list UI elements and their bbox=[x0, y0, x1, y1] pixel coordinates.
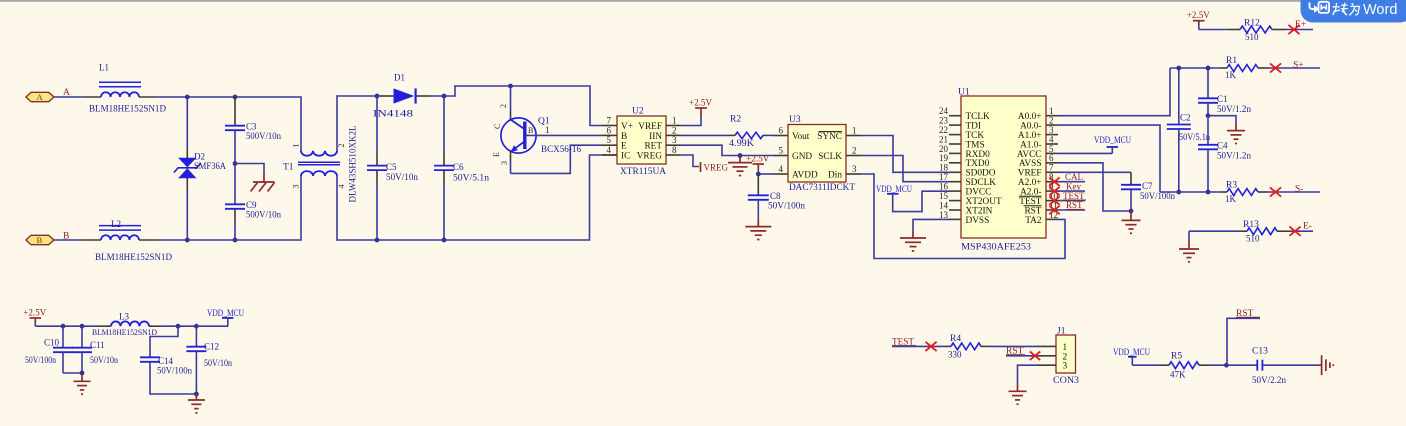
ground at DVSS bbox=[900, 229, 926, 251]
no-ERC at S- bbox=[1270, 187, 1281, 196]
svg-text:50V/5.1n: 50V/5.1n bbox=[1179, 132, 1210, 142]
earth ground at C13 (rotated) bbox=[1322, 355, 1334, 375]
net label S+ bbox=[1293, 61, 1304, 71]
capacitor C2 bbox=[1167, 68, 1211, 192]
svg-text:R5: R5 bbox=[1171, 351, 1182, 361]
svg-text:500V/10n: 500V/10n bbox=[246, 131, 281, 141]
net label A bbox=[63, 88, 70, 98]
power VDD_MCU bottom-left bbox=[207, 309, 244, 326]
wire A to L1 bbox=[54, 96, 101, 98]
svg-text:TA2: TA2 bbox=[1025, 216, 1042, 226]
ground at E- bbox=[1179, 231, 1199, 262]
svg-text:Vout: Vout bbox=[792, 132, 810, 142]
svg-text:R1: R1 bbox=[1226, 56, 1237, 66]
junction C12 ground bbox=[194, 392, 199, 397]
svg-text:+2.5V: +2.5V bbox=[689, 98, 712, 108]
svg-text:2: 2 bbox=[1049, 116, 1054, 126]
DAC U3 DAC7311IDCKT bbox=[773, 115, 861, 193]
wire U1 AVSS to ground bbox=[1058, 163, 1131, 211]
ground at C7 bbox=[1122, 211, 1141, 233]
diode D1 bbox=[373, 73, 430, 119]
connector J1 CON3 bbox=[1037, 327, 1079, 386]
svg-text:C14: C14 bbox=[158, 356, 174, 366]
svg-text:Word: Word bbox=[1363, 2, 1397, 18]
net label E- bbox=[1303, 222, 1312, 232]
svg-text:BLM18HE152SN1D: BLM18HE152SN1D bbox=[95, 252, 172, 262]
junction C11 ground bbox=[80, 371, 85, 376]
svg-text:C3: C3 bbox=[246, 122, 257, 132]
port A bbox=[26, 92, 54, 102]
svg-text:BLM18HE152SN1D: BLM18HE152SN1D bbox=[92, 327, 157, 337]
svg-text:4: 4 bbox=[607, 145, 612, 155]
svg-text:VREG: VREG bbox=[637, 151, 663, 161]
svg-text:50V/1.2n: 50V/1.2n bbox=[1217, 151, 1252, 161]
svg-text:AVDD: AVDD bbox=[792, 170, 818, 180]
wire RST to J1 pin2 bbox=[1006, 355, 1037, 357]
svg-text:4: 4 bbox=[779, 164, 784, 174]
svg-text:C13: C13 bbox=[1252, 347, 1268, 357]
power VDD_MCU bottom-right bbox=[1113, 348, 1150, 365]
svg-text:C10: C10 bbox=[44, 338, 60, 348]
svg-text:5: 5 bbox=[607, 135, 612, 145]
svg-text:VREG: VREG bbox=[704, 162, 729, 172]
ground at C12 bbox=[188, 394, 205, 413]
wire L3 to VDD_MCU bbox=[149, 325, 228, 327]
capacitor C6 bbox=[434, 96, 490, 240]
svg-text:1K: 1K bbox=[1225, 194, 1237, 204]
junction C4 bottom bbox=[1206, 190, 1211, 195]
capacitor C14 bbox=[140, 326, 196, 394]
port B bbox=[26, 235, 54, 245]
no-connect stub CAL pin 8 bbox=[1049, 172, 1085, 186]
MCU U1 MSP430AFE253 bbox=[939, 88, 1059, 253]
wire D1 to U2 V+ bbox=[430, 86, 602, 126]
svg-text:L3: L3 bbox=[119, 312, 129, 322]
svg-text:L2: L2 bbox=[111, 219, 121, 229]
svg-text:C4: C4 bbox=[1217, 141, 1228, 151]
wire U2 RET to U3 GND bbox=[681, 145, 773, 155]
svg-text:3: 3 bbox=[852, 164, 857, 174]
wire J1 pin3 to ground bbox=[1018, 365, 1038, 383]
power +2.5V at E+ bbox=[1187, 11, 1210, 29]
svg-text:R13: R13 bbox=[1243, 220, 1259, 230]
svg-text:VREF: VREF bbox=[638, 122, 662, 132]
net label RST bbox=[1006, 347, 1025, 357]
wire VDD_MCU to R5 bbox=[1132, 364, 1169, 366]
svg-text:BLM18HE152SN1D: BLM18HE152SN1D bbox=[89, 104, 166, 114]
svg-text:1K: 1K bbox=[1225, 70, 1237, 80]
svg-text:510: 510 bbox=[1246, 234, 1260, 244]
svg-text:1: 1 bbox=[545, 125, 550, 135]
wire +2.5V to L3 bbox=[35, 325, 111, 327]
svg-text:500V/10n: 500V/10n bbox=[246, 210, 281, 220]
resistor R5 bbox=[1169, 351, 1199, 379]
power +2.5V at U2 VREF bbox=[681, 98, 712, 125]
junction C2 bottom bbox=[1176, 190, 1181, 195]
net label E+ bbox=[1295, 20, 1306, 30]
junction C12 top bbox=[194, 324, 199, 329]
capacitor C4 bbox=[1198, 116, 1252, 192]
svg-text:L1: L1 bbox=[99, 63, 109, 73]
svg-text:50V/100n: 50V/100n bbox=[768, 201, 806, 211]
svg-text:1: 1 bbox=[852, 126, 857, 136]
resistor R4 bbox=[948, 334, 981, 360]
svg-text:Key: Key bbox=[1066, 181, 1081, 191]
no-ERC at S+ bbox=[1270, 63, 1281, 72]
capacitor C11 bbox=[72, 326, 118, 373]
svg-text:IC: IC bbox=[621, 151, 630, 161]
svg-text:C: C bbox=[493, 124, 502, 129]
svg-text:50V/5.1n: 50V/5.1n bbox=[453, 172, 490, 182]
svg-text:U2: U2 bbox=[632, 107, 644, 117]
wire B to L2 bbox=[54, 239, 101, 241]
capacitor C8 bbox=[748, 174, 806, 219]
wire T1 pin2 to D1 bbox=[337, 96, 380, 151]
svg-text:2: 2 bbox=[499, 104, 508, 108]
svg-text:E+: E+ bbox=[1295, 20, 1306, 30]
capacitor C7 bbox=[1121, 172, 1175, 211]
op-amp U2 XTR115UA bbox=[602, 107, 681, 177]
svg-text:6: 6 bbox=[607, 125, 612, 135]
svg-text:J1: J1 bbox=[1057, 327, 1066, 337]
ground at J1 bbox=[1009, 384, 1027, 405]
svg-text:C12: C12 bbox=[204, 341, 219, 351]
svg-text:B: B bbox=[621, 132, 627, 142]
wire R4 to J1 pin1 bbox=[981, 345, 1037, 347]
ground at C11 bbox=[74, 373, 91, 394]
resistor R3 bbox=[1225, 181, 1237, 205]
svg-text:TDI: TDI bbox=[966, 122, 982, 132]
svg-text:DLW43SH510XK2L: DLW43SH510XK2L bbox=[348, 126, 358, 203]
svg-text:16: 16 bbox=[939, 182, 949, 192]
junction C10 top bbox=[61, 324, 66, 329]
svg-text:7: 7 bbox=[607, 116, 612, 126]
svg-text:6: 6 bbox=[779, 126, 784, 136]
capacitor C13 bbox=[1252, 347, 1287, 386]
resistor R12 bbox=[1244, 19, 1260, 43]
svg-text:+2.5V: +2.5V bbox=[23, 308, 46, 318]
svg-text:3: 3 bbox=[1063, 362, 1068, 372]
svg-text:510: 510 bbox=[1245, 32, 1259, 42]
capacitor C5 bbox=[367, 96, 419, 240]
wire TEST to R4 bbox=[892, 345, 951, 347]
svg-text:DVSS: DVSS bbox=[966, 216, 990, 226]
svg-text:TXD0: TXD0 bbox=[966, 159, 990, 169]
power VDD_MCU at AVCC bbox=[1058, 136, 1131, 153]
svg-text:U3: U3 bbox=[789, 115, 801, 125]
junction A/C3 bbox=[233, 95, 238, 100]
junction earth tap bbox=[233, 161, 238, 166]
svg-text:T1: T1 bbox=[283, 163, 294, 173]
power VDD_MCU at U1 DVCC bbox=[876, 185, 949, 212]
wire Q1 base to U2 B bbox=[527, 134, 603, 136]
svg-text:C1: C1 bbox=[1217, 94, 1228, 104]
svg-text:3: 3 bbox=[672, 135, 677, 145]
convert-to-Word button bbox=[1301, 0, 1406, 23]
wire L1 to T1 pin1 bbox=[139, 97, 301, 151]
wire C13 to earth bbox=[1262, 364, 1321, 366]
svg-text:R12: R12 bbox=[1244, 19, 1260, 29]
no-connect stub TEST pin 10 bbox=[1049, 191, 1086, 205]
svg-text:5: 5 bbox=[779, 146, 784, 156]
svg-text:50V/100n: 50V/100n bbox=[157, 366, 192, 376]
net label RST bottom-right bbox=[1227, 309, 1260, 365]
svg-text:VDD_MCU: VDD_MCU bbox=[1094, 136, 1131, 146]
resistor R1 bbox=[1225, 56, 1237, 80]
capacitor C12 bbox=[186, 326, 232, 394]
wire AVDD bbox=[758, 173, 773, 175]
svg-text:50V/10n: 50V/10n bbox=[90, 355, 118, 365]
svg-text:4: 4 bbox=[337, 185, 346, 189]
ground at RET bbox=[728, 156, 752, 176]
svg-text:2: 2 bbox=[852, 146, 857, 156]
junction B/D2 bbox=[185, 238, 190, 243]
no-ERC at TEST bbox=[925, 342, 936, 351]
svg-text:C7: C7 bbox=[1142, 181, 1153, 191]
wire E+ row bbox=[1199, 26, 1313, 33]
resistor R13 bbox=[1243, 220, 1260, 244]
svg-text:R2: R2 bbox=[730, 115, 741, 125]
svg-text:A: A bbox=[37, 92, 44, 102]
svg-text:3: 3 bbox=[500, 161, 509, 165]
junction C5 bottom bbox=[375, 238, 380, 243]
junction A/D2 bbox=[185, 95, 190, 100]
inductor L1 bbox=[89, 63, 166, 114]
capacitor C9 bbox=[225, 200, 281, 240]
wire C10 to C11 bottom bbox=[63, 372, 82, 374]
svg-text:2: 2 bbox=[337, 144, 346, 148]
wire R5 to C13 bbox=[1199, 364, 1257, 366]
svg-text:C11: C11 bbox=[90, 340, 105, 350]
junction C2 top bbox=[1176, 66, 1181, 71]
junction C14 tap bbox=[176, 324, 181, 329]
svg-text:SCLK: SCLK bbox=[818, 152, 842, 162]
wire Q1 emitter to U2 E bbox=[511, 145, 603, 173]
junction C6 bottom bbox=[442, 238, 447, 243]
power +2.5V bottom-left bbox=[23, 308, 46, 326]
net label S- bbox=[1295, 185, 1303, 195]
ground at C1/C4 bbox=[1208, 116, 1245, 144]
svg-text:C5: C5 bbox=[386, 162, 397, 172]
svg-text:+2.5V: +2.5V bbox=[1187, 11, 1210, 21]
wire to earth ground bbox=[235, 164, 264, 174]
svg-text:DAC7311IDCKT: DAC7311IDCKT bbox=[789, 183, 855, 193]
junction C1 top bbox=[1206, 66, 1211, 71]
wire U3 SCLK to U1 SDCLK bbox=[861, 156, 949, 182]
diode D2 branch wire bbox=[186, 97, 188, 240]
svg-text:B: B bbox=[37, 235, 43, 245]
svg-text:E: E bbox=[492, 152, 501, 157]
svg-text:MSP430AFE253: MSP430AFE253 bbox=[961, 243, 1031, 253]
svg-text:BCX56-16: BCX56-16 bbox=[541, 145, 581, 155]
transistor Q1 bbox=[492, 86, 581, 173]
svg-text:IN4148: IN4148 bbox=[373, 109, 414, 119]
svg-text:S+: S+ bbox=[1293, 61, 1304, 71]
svg-text:C9: C9 bbox=[246, 200, 257, 210]
svg-text:C8: C8 bbox=[770, 191, 781, 201]
junction Q1 collector bbox=[508, 84, 513, 89]
no-connect stub RST pin 11 bbox=[1049, 200, 1085, 214]
inductor L2 bbox=[95, 219, 172, 262]
no-ERC at E- bbox=[1289, 227, 1300, 236]
wire S+ row bbox=[1170, 65, 1320, 72]
svg-text:U1: U1 bbox=[958, 88, 970, 98]
svg-text:D1: D1 bbox=[394, 73, 405, 83]
svg-text:50V/10n: 50V/10n bbox=[386, 172, 419, 182]
top window border bar bbox=[0, 0, 1406, 2]
svg-text:R3: R3 bbox=[1226, 181, 1237, 191]
junction C6 top bbox=[442, 94, 447, 99]
svg-text:SMF36A: SMF36A bbox=[194, 161, 226, 171]
ground at C8 bbox=[745, 219, 771, 240]
no-connect stub Key pin 9 bbox=[1049, 181, 1085, 195]
junction C5 top bbox=[375, 94, 380, 99]
no-ERC at E+ bbox=[1288, 25, 1299, 34]
svg-text:C6: C6 bbox=[453, 162, 464, 172]
svg-text:E-: E- bbox=[1303, 222, 1312, 232]
wire U3 SYNC to U1 SD0DO bbox=[861, 136, 949, 173]
svg-text:RET: RET bbox=[644, 142, 662, 152]
svg-text:50V/2.2n: 50V/2.2n bbox=[1252, 375, 1287, 385]
svg-text:47K: 47K bbox=[1170, 370, 1186, 380]
svg-text:E: E bbox=[621, 142, 627, 152]
wire U1 DVSS to ground bbox=[913, 219, 949, 229]
junction C11 top bbox=[80, 324, 85, 329]
junction RET ground bbox=[738, 153, 743, 158]
junction B/C9 bbox=[233, 238, 238, 243]
svg-text:B: B bbox=[528, 126, 533, 135]
svg-text:50V/10n: 50V/10n bbox=[204, 358, 232, 368]
wire C3 to C9 bbox=[234, 130, 236, 204]
svg-text:1: 1 bbox=[672, 116, 677, 126]
junction RST/C13 bbox=[1224, 363, 1229, 368]
wire S- row bbox=[1160, 189, 1320, 196]
wire L2 to T1 pin3 bbox=[139, 176, 301, 240]
svg-text:23: 23 bbox=[939, 116, 949, 126]
svg-text:3: 3 bbox=[292, 185, 301, 189]
diode D2 bbox=[174, 152, 227, 179]
transformer T1 bbox=[283, 126, 358, 203]
inductor L3 bbox=[92, 312, 157, 338]
wire E- row bbox=[1189, 228, 1313, 235]
wire U1 pin2 to S- row bbox=[1058, 125, 1160, 192]
svg-text:RST: RST bbox=[1066, 200, 1083, 210]
capacitor C10 bbox=[25, 326, 73, 373]
capacitor C1 bbox=[1198, 68, 1252, 116]
svg-text:50V/100n: 50V/100n bbox=[25, 355, 56, 365]
svg-text:CON3: CON3 bbox=[1053, 376, 1079, 386]
svg-text:S-: S- bbox=[1295, 185, 1303, 195]
svg-text:R4: R4 bbox=[950, 334, 961, 344]
junction C1-C4 bbox=[1206, 113, 1211, 118]
svg-text:V+: V+ bbox=[621, 122, 633, 132]
earth ground (chassis) bbox=[251, 174, 275, 192]
net label B bbox=[63, 232, 69, 242]
svg-text:Din: Din bbox=[828, 170, 842, 180]
power +2.5V at U3 AVDD bbox=[746, 154, 769, 174]
svg-text:DVCC: DVCC bbox=[966, 188, 992, 198]
svg-text:330: 330 bbox=[948, 350, 962, 360]
svg-text:GND: GND bbox=[792, 152, 812, 162]
wire U1 pin1 to S+ row bbox=[1058, 68, 1170, 116]
svg-text:19: 19 bbox=[939, 153, 949, 163]
svg-text:C2: C2 bbox=[1180, 113, 1191, 123]
svg-text:SYNC: SYNC bbox=[817, 132, 842, 142]
wire U1 VREF to C7 bbox=[1058, 171, 1131, 173]
wire T1 pin4 right bbox=[337, 155, 617, 240]
svg-text:8: 8 bbox=[672, 145, 677, 155]
svg-text:A0.0-: A0.0- bbox=[1020, 122, 1041, 132]
svg-text:1: 1 bbox=[292, 144, 301, 148]
svg-text:+2.5V: +2.5V bbox=[746, 154, 769, 164]
svg-text:13: 13 bbox=[939, 210, 949, 220]
svg-text:AVSS: AVSS bbox=[1019, 159, 1042, 169]
svg-text:XTR115UA: XTR115UA bbox=[620, 167, 666, 177]
resistor R2 bbox=[681, 115, 773, 148]
junction C8 bbox=[756, 172, 761, 177]
svg-text:2: 2 bbox=[672, 125, 677, 135]
svg-text:IIN: IIN bbox=[649, 132, 662, 142]
junction C7 ground bbox=[1129, 209, 1134, 214]
capacitor C3 bbox=[225, 97, 281, 141]
svg-text:4.99K: 4.99K bbox=[729, 138, 755, 148]
svg-text:50V/1.2n: 50V/1.2n bbox=[1217, 104, 1252, 114]
net label VREG bbox=[681, 155, 729, 172]
wire U3 Din to U1 TA2 bbox=[861, 174, 1065, 259]
svg-text:6: 6 bbox=[1049, 153, 1054, 163]
no-ERC at RST bbox=[1030, 352, 1040, 361]
net label TEST bbox=[892, 337, 916, 347]
